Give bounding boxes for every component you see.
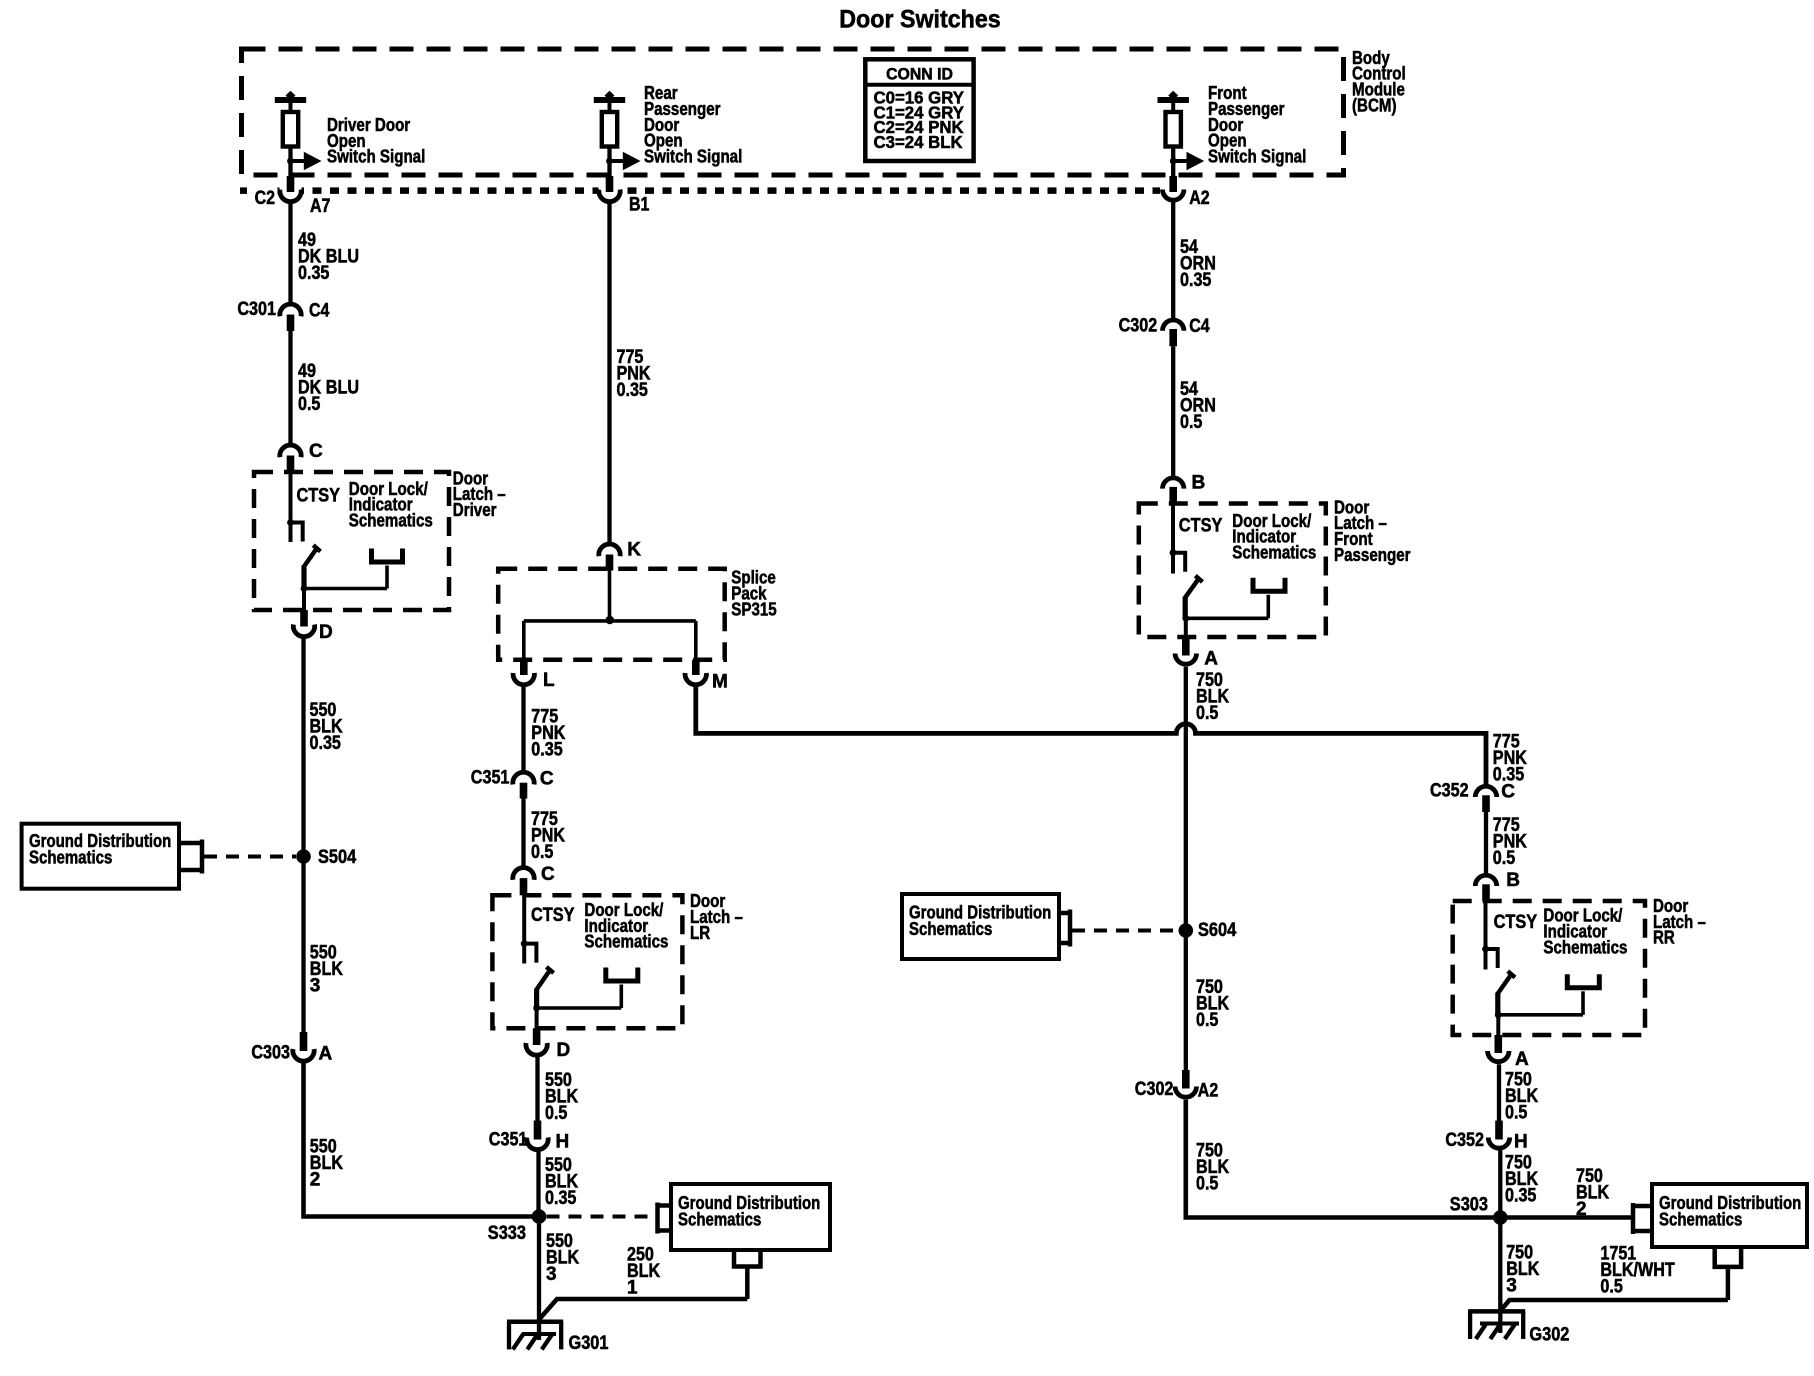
svg-text:C302: C302: [1135, 1079, 1174, 1100]
Ground Distribution Schematics box (S504): [22, 824, 179, 889]
wire 750 BLK 0.5 (S604 to C302:A2): [1184, 931, 1188, 1071]
svg-text:2: 2: [310, 1170, 321, 1191]
label Door Lock/Indicator Schematics (FP): [1232, 511, 1316, 563]
label 49 DK BLU 0.5: [298, 361, 359, 415]
svg-text:0.35: 0.35: [531, 740, 563, 761]
svg-text:G302: G302: [1529, 1324, 1569, 1345]
svg-text:3: 3: [546, 1264, 557, 1285]
wire driver latch to connector D: [302, 589, 306, 612]
svg-text:0.5: 0.5: [545, 1103, 568, 1124]
label 550 BLK 0.5: [545, 1070, 578, 1124]
LR latch CTSY wire and fixed contact: [521, 895, 537, 963]
connector C - door latch driver CTSY input: [280, 441, 323, 473]
svg-text:H: H: [1514, 1131, 1528, 1152]
svg-text:Passenger: Passenger: [1334, 545, 1411, 565]
svg-text:C301: C301: [237, 299, 276, 320]
Ground Distribution Schematics box (S604): [902, 894, 1059, 959]
dashed reference wire to S604: [1072, 929, 1178, 933]
svg-text:C4: C4: [309, 300, 330, 321]
LR latch pawl symbol: [537, 968, 638, 1009]
FP latch CTSY wire and fixed contact: [1170, 504, 1186, 574]
svg-text:0.5: 0.5: [1196, 1174, 1219, 1195]
front passenger door open switch (plunger, resistor element): [1158, 91, 1189, 177]
label Door Latch - Driver: [453, 468, 506, 520]
svg-text:G301: G301: [569, 1333, 609, 1354]
bracket from S303 wire to Ground Distribution box: [1633, 1203, 1652, 1234]
label 750 BLK 0.5 (below S604): [1196, 977, 1229, 1031]
connector C352 pin C: [1430, 781, 1515, 812]
svg-text:A: A: [319, 1044, 333, 1065]
svg-text:0.5: 0.5: [531, 842, 554, 863]
driver switch signal arrow: [287, 152, 321, 171]
bracket from Ground Distribution box to S604 wire: [1059, 910, 1070, 947]
label Front Passenger Door Open Switch Signal: [1208, 83, 1306, 166]
svg-text:Switch Signal: Switch Signal: [644, 146, 742, 166]
label Door Latch - RR: [1653, 896, 1706, 948]
Door Latch - RR dashed box: [1453, 901, 1645, 1035]
wire RR latch to connector A: [1496, 1015, 1500, 1036]
label 775 PNK 0.5: [531, 809, 565, 863]
svg-text:S303: S303: [1450, 1195, 1488, 1216]
wire 750 BLK 3 (S303 to G302): [1498, 1218, 1502, 1334]
splice S504: [296, 847, 356, 868]
svg-text:CTSY: CTSY: [297, 485, 341, 506]
Door Latch - Driver dashed box: [254, 472, 449, 610]
svg-text:Schematics: Schematics: [909, 918, 992, 939]
svg-text:C351: C351: [489, 1129, 528, 1150]
svg-text:C352: C352: [1445, 1130, 1484, 1151]
connector pin M (splice pack output): [685, 660, 728, 693]
connector C - door latch LR CTSY input: [513, 864, 555, 895]
svg-text:Driver: Driver: [453, 500, 497, 520]
CONN ID table: [865, 59, 973, 161]
connector C303 pin A: [251, 1032, 332, 1065]
splice S303: [1450, 1195, 1508, 1225]
svg-text:CTSY: CTSY: [531, 905, 575, 926]
wire 775 PNK 0.5 (C351 to LR latch): [521, 799, 525, 868]
svg-text:0.5: 0.5: [1196, 1010, 1219, 1031]
connector C351 pin C: [471, 768, 554, 799]
splice S604: [1179, 920, 1237, 941]
svg-text:Schematics: Schematics: [349, 511, 433, 531]
connector C2 pin A7: [255, 176, 331, 217]
svg-text:Schematics: Schematics: [1232, 542, 1316, 562]
wire 54 ORN 0.5 (C302 to FP latch): [1171, 346, 1175, 476]
svg-text:C4: C4: [1189, 316, 1210, 337]
connector pin A2: [1162, 176, 1209, 209]
svg-text:0.5: 0.5: [1505, 1103, 1528, 1124]
svg-text:Schematics: Schematics: [1543, 937, 1627, 957]
wire 775 PNK 0.5 (C352 to RR latch): [1484, 812, 1488, 874]
label 775 PNK 0.35 (RR branch): [1493, 731, 1527, 785]
RR latch pawl symbol: [1498, 974, 1599, 1015]
svg-text:S333: S333: [488, 1223, 526, 1244]
wire 49 DK BLU 0.5: [288, 331, 292, 446]
svg-text:C3=24 BLK: C3=24 BLK: [874, 132, 963, 152]
connector B - door latch RR CTSY input: [1475, 870, 1520, 901]
svg-text:C: C: [1501, 782, 1515, 803]
svg-text:Schematics: Schematics: [678, 1209, 761, 1230]
connector pin L (splice pack output): [513, 660, 555, 692]
svg-text:CTSY: CTSY: [1179, 515, 1223, 536]
svg-text:B1: B1: [629, 195, 650, 216]
svg-text:0.5: 0.5: [1196, 703, 1219, 724]
splice pack internal wires and junction: [524, 571, 696, 661]
FP latch switch blade: [1182, 576, 1202, 622]
svg-text:0.35: 0.35: [310, 733, 342, 754]
connector C302 pin A2: [1135, 1070, 1218, 1102]
wire 550 BLK 0.5 (D to C351:H): [535, 1056, 539, 1121]
Ground Distribution Schematics box (S333): [671, 1184, 830, 1250]
wire 550 BLK 0.35 (D to S504): [301, 638, 305, 857]
rear passenger door open switch (plunger, resistor element): [594, 91, 625, 177]
svg-text:A2: A2: [1198, 1081, 1218, 1102]
ground G301: [507, 1322, 609, 1354]
wire 54 ORN 0.35 (A2 to C302:C4): [1171, 203, 1175, 319]
wire 550 BLK 3 (S504 to C303): [301, 857, 305, 1033]
label 550 BLK 0.35: [310, 700, 343, 754]
bracket from Ground Distribution box to S504 wire: [179, 840, 202, 874]
label 750 BLK 0.35: [1505, 1153, 1538, 1207]
svg-text:0.35: 0.35: [1180, 270, 1212, 291]
RR latch switch blade: [1495, 971, 1515, 1018]
label 49 DK BLU 0.35: [298, 230, 359, 284]
driver latch pawl symbol: [304, 549, 403, 589]
svg-text:D: D: [557, 1040, 571, 1061]
label Body Control Module (BCM): [1352, 48, 1406, 115]
dashed reference wire S333 to Ground Distribution box: [547, 1215, 656, 1219]
svg-text:Schematics: Schematics: [584, 932, 668, 952]
label Driver Door Open Switch Signal: [327, 115, 425, 167]
label 550 BLK 3 (ground leg): [546, 1231, 579, 1285]
svg-text:0.35: 0.35: [545, 1188, 577, 1209]
wire 750 BLK 0.5 (C302:A2 to S303): [1186, 1100, 1500, 1218]
svg-text:S604: S604: [1198, 920, 1237, 941]
front passenger switch signal arrow: [1170, 152, 1204, 171]
label 550 BLK 2: [310, 1137, 343, 1191]
svg-text:D: D: [319, 622, 333, 643]
svg-text:LR: LR: [690, 923, 710, 943]
svg-text:A: A: [1204, 649, 1218, 670]
connector C302 pin C4: [1119, 315, 1210, 346]
svg-text:0.5: 0.5: [1600, 1277, 1623, 1298]
svg-text:Switch Signal: Switch Signal: [327, 147, 425, 167]
svg-text:SP315: SP315: [731, 599, 776, 619]
label Door Lock/Indicator Schematics (LR): [584, 900, 668, 952]
Ground Distribution Schematics box (S303): [1652, 1184, 1807, 1247]
label Rear Passenger Door Open Switch Signal: [644, 83, 742, 166]
label 750 BLK 0.5 (RR): [1505, 1070, 1538, 1124]
RR latch CTSY wire and fixed contact: [1482, 901, 1498, 970]
connector pin A (RR latch): [1488, 1035, 1529, 1070]
wire 775 PNK (M to C352 with crossover hump): [696, 686, 1486, 785]
svg-text:A: A: [1515, 1049, 1529, 1070]
driver latch CTSY wire and fixed contact: [287, 473, 303, 542]
Door Latch - LR dashed box: [492, 895, 682, 1028]
wire 250 BLK 1 to ground G301: [539, 1299, 747, 1320]
wire C2:A7 to C301:C4: [288, 203, 292, 306]
svg-text:3: 3: [310, 976, 321, 997]
label 54 ORN 0.35: [1180, 237, 1216, 291]
connector pin K (splice pack): [599, 539, 641, 570]
svg-text:B: B: [1192, 473, 1206, 494]
Door Latch - Front Passenger dashed box: [1139, 504, 1326, 638]
wire FP latch to connector A: [1184, 618, 1188, 637]
svg-text:0.5: 0.5: [1493, 848, 1516, 869]
connector pin A (FP latch): [1175, 637, 1218, 670]
svg-text:Schematics: Schematics: [1659, 1209, 1742, 1230]
svg-text:CONN ID: CONN ID: [886, 65, 953, 83]
connector bracket below Ground Distribution box (250 BLK feed): [734, 1250, 761, 1299]
svg-text:2: 2: [1576, 1199, 1587, 1220]
svg-text:C2: C2: [255, 188, 275, 209]
svg-text:H: H: [556, 1131, 570, 1152]
connector pin D (LR latch): [526, 1028, 570, 1061]
label 250 BLK 1: [627, 1245, 660, 1299]
connector bracket below Ground Distribution box (1751 BLK/WHT feed): [1715, 1247, 1741, 1300]
ground G302: [1468, 1311, 1569, 1345]
svg-text:0.5: 0.5: [298, 394, 321, 415]
svg-text:1: 1: [627, 1278, 638, 1299]
connector C301 pin C4: [237, 299, 329, 331]
svg-text:CTSY: CTSY: [1494, 912, 1538, 933]
bracket from S333 wire to Ground Distribution box: [658, 1203, 672, 1234]
wire 1751 BLK/WHT 0.5 to ground G302: [1500, 1300, 1728, 1311]
wire 550 BLK 0.35 (C351:H to S333): [536, 1151, 540, 1217]
label 550 BLK 3: [310, 943, 343, 997]
label 750 BLK 2: [1576, 1166, 1609, 1220]
label Door Latch - Front Passenger: [1334, 497, 1411, 564]
svg-text:C: C: [541, 864, 555, 885]
wire 775 PNK 0.35 (L to C351): [521, 686, 525, 772]
label 750 BLK 0.5 (bottom): [1196, 1141, 1229, 1195]
svg-text:Switch Signal: Switch Signal: [1208, 146, 1306, 166]
svg-text:0.35: 0.35: [1505, 1186, 1537, 1207]
BCM connector face dotted line: [240, 187, 1160, 194]
svg-text:3: 3: [1506, 1275, 1517, 1296]
wire 550 BLK 2 (C303 to S333): [304, 1062, 540, 1217]
wire 750 BLK 2 (S303 to Ground Distribution box): [1507, 1215, 1631, 1220]
wire 550 BLK 3 (S333 to G301): [537, 1217, 541, 1341]
svg-text:M: M: [712, 671, 728, 692]
connector C351 pin H: [489, 1121, 569, 1153]
label 1751 BLK/WHT 0.5: [1600, 1244, 1675, 1298]
svg-text:K: K: [627, 539, 641, 560]
wire LR latch to connector D: [535, 1008, 539, 1029]
svg-text:0.35: 0.35: [617, 380, 649, 401]
svg-text:A7: A7: [310, 196, 330, 217]
label Door Latch - LR: [690, 891, 743, 943]
svg-text:L: L: [543, 670, 555, 691]
label 775 PNK 0.35 (L branch): [531, 707, 565, 761]
svg-text:RR: RR: [1653, 928, 1675, 948]
svg-text:S504: S504: [318, 847, 357, 868]
connector pin B1: [599, 176, 650, 216]
connector B - door latch front passenger CTSY input: [1163, 473, 1206, 504]
svg-text:Door Switches: Door Switches: [839, 6, 1001, 34]
label 750 BLK 0.5: [1196, 670, 1229, 724]
Body Control Module (BCM) dashed box: [242, 49, 1344, 175]
wire 750 BLK 0.5 (A to S604): [1184, 667, 1188, 931]
label Door Lock/Indicator Schematics (RR): [1543, 906, 1627, 958]
connector pin D (driver latch): [293, 610, 332, 643]
svg-text:A2: A2: [1189, 188, 1209, 209]
LR latch switch blade: [533, 967, 553, 1011]
splice S333: [488, 1209, 547, 1244]
wire 750 BLK 0.5 (A to C352:H): [1497, 1064, 1501, 1121]
svg-text:B: B: [1506, 870, 1520, 891]
svg-text:C: C: [540, 769, 554, 790]
label 775 PNK 0.5 (RR): [1493, 815, 1527, 869]
svg-text:C302: C302: [1119, 315, 1158, 336]
wire 750 BLK 0.35 (C352:H to S303): [1498, 1151, 1502, 1218]
driver door open switch (plunger, resistor element): [275, 91, 306, 177]
svg-text:0.35: 0.35: [298, 263, 330, 284]
label 54 ORN 0.5: [1180, 379, 1216, 433]
driver latch switch blade: [301, 545, 321, 592]
svg-text:(BCM): (BCM): [1352, 95, 1397, 115]
label 550 BLK 0.35: [545, 1155, 578, 1209]
rear passenger switch signal arrow: [606, 152, 640, 171]
label Door Lock/Indicator Schematics (driver): [349, 479, 433, 531]
svg-text:0.5: 0.5: [1180, 412, 1203, 433]
svg-text:C352: C352: [1430, 781, 1469, 802]
wire 775 PNK 0.35 (B1 to K): [607, 203, 611, 544]
svg-text:C351: C351: [471, 768, 510, 789]
svg-text:Schematics: Schematics: [29, 847, 112, 868]
label 775 PNK 0.35: [617, 347, 651, 401]
connector C352 pin H: [1445, 1121, 1527, 1153]
FP latch pawl symbol: [1186, 578, 1285, 619]
label Splice Pack SP315: [731, 568, 776, 620]
dashed reference wire to S504: [204, 855, 296, 859]
svg-text:C303: C303: [251, 1043, 290, 1064]
label 750 BLK 3: [1506, 1242, 1539, 1296]
Splice Pack SP315 dashed box: [498, 569, 725, 660]
svg-text:C: C: [309, 441, 323, 462]
